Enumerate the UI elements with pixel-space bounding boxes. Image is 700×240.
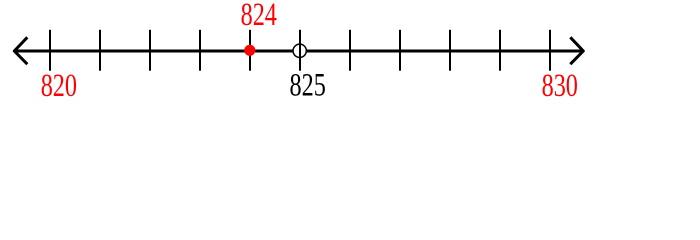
svg-text:820: 820 <box>41 68 77 100</box>
svg-text:824: 824 <box>241 0 277 33</box>
svg-text:830: 830 <box>542 68 578 100</box>
svg-text:825: 825 <box>290 68 326 100</box>
